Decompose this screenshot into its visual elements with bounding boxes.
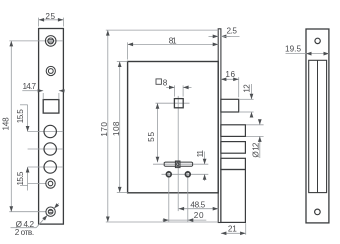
leader diameter 4.2 xyxy=(11,203,59,227)
dimension 55 xyxy=(157,103,159,162)
svg-text:11: 11 xyxy=(196,149,205,157)
extension lines bolt holes xyxy=(28,132,64,184)
small double hole xyxy=(46,179,55,188)
strike slot divider xyxy=(317,60,319,192)
extension line hole1 xyxy=(9,40,63,42)
lever bar xyxy=(164,161,192,168)
dimension 2.5 xyxy=(209,35,240,37)
dimension 48.5 xyxy=(179,208,219,210)
dimension 19.5 xyxy=(286,53,330,55)
bolt hole 3 xyxy=(44,161,56,173)
dimension 20 xyxy=(162,219,206,221)
latch bolt xyxy=(221,99,239,112)
svg-text:2 отв.: 2 отв. xyxy=(15,228,34,237)
svg-text:16: 16 xyxy=(225,70,235,79)
rivet left xyxy=(166,172,171,177)
svg-text:19.5: 19.5 xyxy=(285,45,301,54)
rivet centerline xyxy=(162,173,209,175)
svg-text:15.5: 15.5 xyxy=(16,109,25,123)
svg-text:81: 81 xyxy=(169,36,177,45)
dimension square 8 xyxy=(166,85,191,96)
svg-text:48.5: 48.5 xyxy=(190,201,205,210)
deadbolt pin 2 xyxy=(221,142,246,154)
dimension 108 xyxy=(117,62,128,193)
hole 2 double circle xyxy=(46,66,55,75)
svg-text:8: 8 xyxy=(163,78,168,87)
dimension 21 xyxy=(221,223,246,235)
svg-text:20: 20 xyxy=(194,211,204,220)
vertical centerline spindle xyxy=(177,96,179,211)
dimension 81 xyxy=(128,42,219,59)
svg-text:55: 55 xyxy=(147,131,156,141)
strike screw hole top xyxy=(315,38,320,43)
dimension 16 xyxy=(221,77,239,97)
dimension diameter 12 xyxy=(246,119,264,158)
strike plate outline xyxy=(306,29,329,223)
rivet vertical ticks and extension lines xyxy=(169,171,188,222)
svg-text:12: 12 xyxy=(242,84,251,93)
strike screw hole bottom xyxy=(315,209,321,215)
lever centerline xyxy=(153,163,208,165)
square latch opening xyxy=(43,100,59,114)
screw hole top slotted xyxy=(45,36,56,47)
dimension 148 xyxy=(10,41,12,212)
lower tail block xyxy=(221,170,246,223)
bolt hole 1 xyxy=(44,125,56,137)
faceplate front outline xyxy=(39,29,64,225)
deadbolt pin 3 xyxy=(221,158,246,169)
svg-text:Ø 12: Ø 12 xyxy=(251,142,260,157)
dimension 14.7 xyxy=(22,91,65,100)
rivet right xyxy=(185,172,190,177)
strike slot xyxy=(309,60,327,192)
dimension 170 xyxy=(106,30,218,222)
horizontal centerline square + 55 ext xyxy=(156,102,190,104)
faceplate edge strip xyxy=(218,29,221,223)
deadbolt pin 1 xyxy=(221,125,246,137)
svg-text:25: 25 xyxy=(45,12,55,21)
bottom screw hole slotted xyxy=(46,207,55,216)
svg-text:14.7: 14.7 xyxy=(23,82,37,91)
lock case outline xyxy=(128,62,219,193)
dimension chain 15.5 15.5 xyxy=(20,105,28,191)
square symbol of label 8 xyxy=(156,79,161,84)
svg-text:21: 21 xyxy=(228,224,237,233)
extension line bottom hole xyxy=(9,211,45,213)
svg-text:15.5: 15.5 xyxy=(16,171,25,185)
svg-text:108: 108 xyxy=(112,121,121,136)
dimension 25 xyxy=(39,18,64,27)
svg-text:2.5: 2.5 xyxy=(227,27,238,36)
square spindle hole xyxy=(174,99,183,108)
svg-text:148: 148 xyxy=(1,117,10,131)
dimension 11 xyxy=(204,152,206,181)
svg-text:170: 170 xyxy=(100,122,109,137)
bolt hole 2 xyxy=(44,143,56,155)
dimension 12 latch xyxy=(240,84,254,118)
